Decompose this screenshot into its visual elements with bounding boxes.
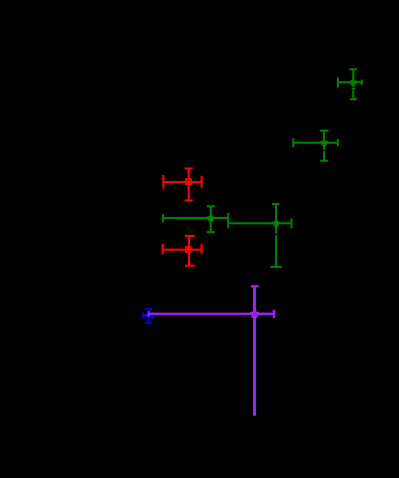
green data point B [293,131,338,161]
H right cap [273,310,276,318]
A small lower stat cap [352,88,356,90]
green data point D [163,206,228,232]
G star marker [146,313,151,318]
E bottom cap [271,266,282,268]
wire: H horizontal error bar [149,313,274,315]
wire: G horizontal error bar [143,315,152,317]
wire: A horizontal error bar [338,81,362,83]
F vertical error bar [188,236,190,266]
A star marker [350,79,357,86]
A top cap [349,68,357,70]
G vertical error bar [147,309,149,323]
B vertical error bar lower [323,151,325,161]
B top cap [320,130,329,132]
wire: F horizontal error bar [163,249,202,251]
D vertical error bar [210,206,212,232]
F filled square marker [185,246,192,253]
F top cap [185,235,195,237]
B bottom cap [320,160,328,162]
G right cap [152,312,154,319]
C right cap [201,176,203,188]
E right cap [290,218,292,228]
A vertical error bar lower [352,91,354,100]
H left cap (hidden under blue point) [148,311,150,316]
F right cap [201,244,203,255]
blue data point G [143,309,152,323]
red data point C (open square) [163,169,201,201]
A vertical error bar upper [352,69,354,87]
green data point E [228,204,291,267]
H vertical error bar [253,286,256,415]
D top cap [207,205,215,207]
red data point F (filled square) [163,236,202,266]
C vertical error bar [188,169,190,201]
H top cap [251,285,259,287]
A left cap [337,77,339,87]
D left cap [162,214,164,222]
C open square marker [186,179,191,184]
A right cap (small) [361,80,363,86]
H star marker [250,310,259,318]
E vertical error bar upper [275,204,277,234]
C left cap [162,175,164,189]
E top cap [272,203,280,205]
D right cap (merged with E left cap) [227,213,229,223]
B right cap [337,139,339,146]
E vertical error bar lower [275,235,277,267]
C bottom cap [185,199,193,201]
C top cap [185,167,193,169]
green data point A (top right) [338,69,362,99]
G left cap [142,312,144,319]
A bottom cap [350,98,357,100]
wire: C horizontal error bar [163,181,201,183]
D star marker [207,214,214,221]
B left cap [292,138,294,147]
wire: D horizontal error bar [163,217,228,219]
E left cap [227,218,229,228]
purple data point H [149,286,274,415]
wire: B horizontal error bar [293,142,338,144]
G top cap [145,308,152,310]
B star marker [321,139,328,146]
wire: E horizontal error bar [228,222,291,224]
B vertical error bar upper [323,131,325,150]
F left cap [162,244,164,255]
E star marker [273,220,280,227]
G bottom cap [145,322,152,324]
D bottom cap [207,231,215,233]
F bottom cap [185,265,195,267]
